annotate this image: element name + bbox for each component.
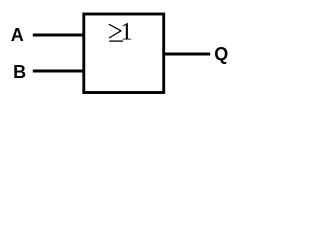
svg-text:1: 1 xyxy=(120,19,133,46)
svg-text:B: B xyxy=(13,62,26,82)
node label A xyxy=(11,25,24,45)
wire input B xyxy=(33,70,84,73)
OR gate U1 body xyxy=(84,14,164,93)
svg-text:A: A xyxy=(11,25,24,45)
svg-text:Q: Q xyxy=(214,44,228,64)
node label Q xyxy=(214,44,228,64)
node label B xyxy=(13,62,26,82)
wire input A xyxy=(33,34,84,37)
wire output Q xyxy=(163,53,210,56)
OR gate U1 function label "≥1" xyxy=(109,19,133,46)
